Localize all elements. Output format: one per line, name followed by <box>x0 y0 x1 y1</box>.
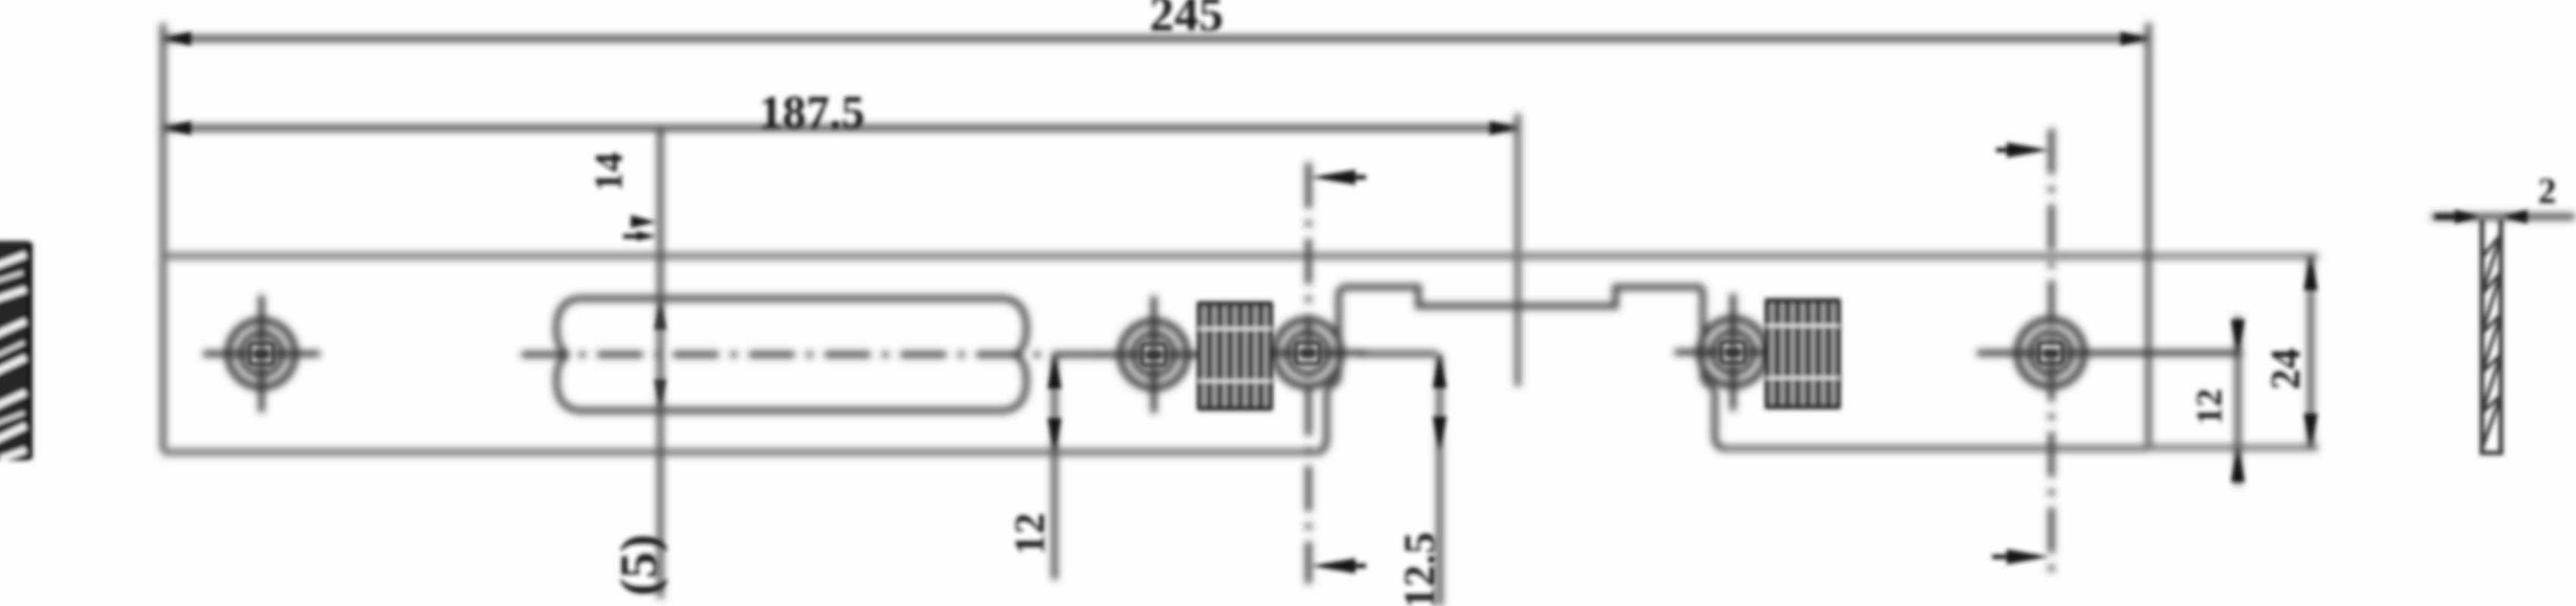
arrow 14 upper (slot top) <box>654 301 666 330</box>
plate left edge / extension line <box>160 23 166 451</box>
hole H4 center square <box>1721 342 1745 363</box>
H5 centerline bottom arrow <box>2007 549 2049 564</box>
arrow 24 up <box>2304 257 2317 290</box>
arrow 12.5 down <box>1433 417 1446 450</box>
plate right edge <box>2145 23 2151 448</box>
small arrow (5) lower with tail <box>637 231 657 241</box>
hole H5 center square <box>2039 342 2063 364</box>
dim line 12 left at x=1391 <box>1051 355 1058 579</box>
hole H4 rings <box>1675 294 1791 411</box>
svg-text:24: 24 <box>2262 348 2308 390</box>
arrow 245 right <box>2120 32 2147 45</box>
plate bottom edge right part <box>1722 445 2148 452</box>
hole H3 rings <box>1249 320 1366 386</box>
arrow 14 lower (slot bottom) <box>654 380 666 408</box>
arrow 12L down <box>1048 418 1061 451</box>
dimension line 187.5 <box>163 125 1518 131</box>
side view bar <box>2482 219 2501 455</box>
arrow 12R bottom (outside pointing up) <box>2231 448 2245 482</box>
side view arrow right <box>2503 210 2527 223</box>
dim line 12 right at x=2952 <box>2235 317 2241 485</box>
H5 centerline top arrow <box>2007 142 2049 158</box>
dim 12.5 leader horizontal <box>1357 351 1437 357</box>
svg-text:12: 12 <box>1007 513 1054 555</box>
hole H2 rings <box>1095 296 1212 413</box>
extension line right of 187.5 <box>1515 114 1521 386</box>
svg-text:12.5: 12.5 <box>1395 532 1444 606</box>
hatch block A <box>1199 301 1271 411</box>
hole H1 center square <box>249 343 274 364</box>
svg-text:187.5: 187.5 <box>759 87 865 139</box>
plate top edge <box>163 253 2148 260</box>
H3 centerline bottom arrow <box>1311 558 1355 573</box>
svg-text:14: 14 <box>588 152 631 192</box>
arrow 12L up <box>1048 355 1061 389</box>
dim line 24 at x=3048 <box>2308 256 2314 448</box>
hole H2 center square <box>1142 344 1166 365</box>
small arrow (5) upper <box>631 215 657 228</box>
left edge cross-section strip <box>0 241 31 461</box>
arrow 12R top (outside pointing down) <box>2231 320 2245 353</box>
side view thickness dim line <box>2432 214 2574 220</box>
H3 centerline top arrow <box>1311 170 1355 185</box>
slot horizontal centerline <box>522 351 1097 358</box>
dim line 12.5 vertical at x=1899 <box>1437 354 1443 606</box>
arrow 245 left <box>165 32 191 45</box>
arrow 187.5 left <box>165 121 191 135</box>
side view arrow left <box>2455 210 2479 223</box>
slot top edge <box>581 295 1002 302</box>
bottom edge extension for 24 dim <box>2148 445 2318 451</box>
svg-text:245: 245 <box>1149 0 1224 42</box>
top edge extension for 24 dim <box>2148 253 2318 259</box>
slot left brace end <box>556 298 581 411</box>
hole H3 vertical centerline <box>1305 163 1312 583</box>
svg-text:2: 2 <box>2538 171 2556 211</box>
arrow 187.5 right <box>1490 121 1516 135</box>
dim line 14 / (5) vertical at x=871 <box>657 128 663 598</box>
arrow 12.5 up <box>1433 355 1446 388</box>
hole H3 center square <box>1296 342 1320 364</box>
hole H1 rings <box>203 295 320 412</box>
hole H5 rings <box>1977 320 2242 386</box>
arrow 24 down <box>2304 414 2317 447</box>
slot right brace end <box>1002 298 1026 411</box>
hole H5 vertical centerline <box>2048 129 2054 578</box>
slot bottom edge <box>581 408 1002 414</box>
middle cutout contour right tab <box>1698 287 1724 448</box>
dimension line 245 <box>163 36 2148 42</box>
svg-text:12: 12 <box>2189 389 2230 425</box>
hatch block B <box>1767 298 1838 409</box>
plate bottom edge left part <box>163 449 1319 456</box>
middle cutout contour left tab <box>1318 287 1347 452</box>
cutout step upper ledge <box>1347 287 1698 306</box>
svg-text:(5): (5) <box>610 534 669 596</box>
